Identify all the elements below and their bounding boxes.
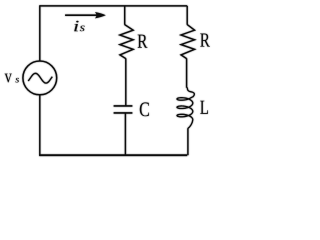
- artwork core: [5, 5, 210, 156]
- artwork halo: [5, 5, 210, 156]
